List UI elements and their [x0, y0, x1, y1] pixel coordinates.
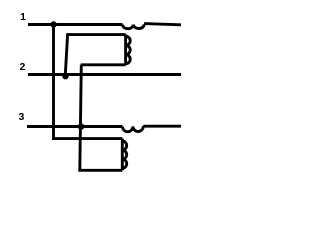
svg-text:1: 1	[20, 11, 26, 23]
svg-text:3: 3	[18, 111, 24, 123]
svg-text:2: 2	[19, 61, 25, 73]
